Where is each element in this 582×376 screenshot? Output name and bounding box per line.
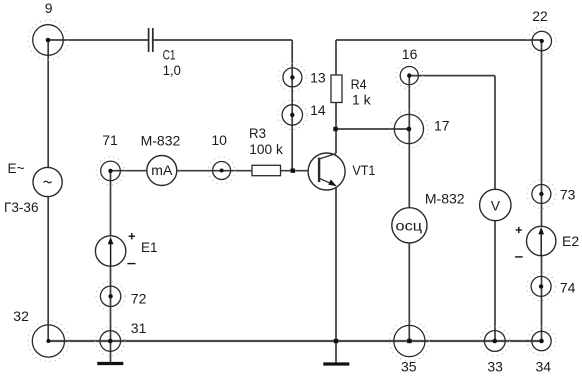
svg-text:1 k: 1 k [352,92,372,108]
svg-text:33: 33 [487,358,503,374]
svg-text:E2: E2 [562,233,579,249]
svg-text:R3: R3 [249,125,266,141]
svg-text:9: 9 [45,0,53,16]
svg-text:13: 13 [310,70,326,86]
svg-text:14: 14 [310,102,326,118]
svg-text:V: V [491,197,501,213]
svg-text:M-832: M-832 [425,191,465,207]
svg-text:73: 73 [560,187,576,203]
svg-text:VT1: VT1 [352,162,375,178]
svg-text:22: 22 [532,8,548,24]
svg-text:35: 35 [401,358,417,374]
svg-text:17: 17 [434,118,450,134]
svg-text:E1: E1 [141,239,158,255]
svg-text:M-832: M-832 [141,133,181,149]
svg-text:71: 71 [102,132,118,148]
svg-text:72: 72 [131,291,147,307]
svg-text:10: 10 [211,132,227,148]
svg-text:C1: C1 [163,47,176,63]
svg-text:31: 31 [131,320,147,336]
svg-text:R4: R4 [351,76,367,92]
svg-text:32: 32 [13,308,29,324]
svg-text:74: 74 [560,280,576,296]
svg-text:16: 16 [402,46,418,62]
svg-text:1,0: 1,0 [163,62,181,78]
svg-text:осц: осц [396,217,423,233]
svg-text:mA: mA [151,162,173,178]
svg-text:Г3-36: Г3-36 [4,199,39,215]
svg-text:100 k: 100 k [249,141,283,157]
svg-text:34: 34 [536,358,552,374]
svg-text:E~: E~ [8,160,25,176]
